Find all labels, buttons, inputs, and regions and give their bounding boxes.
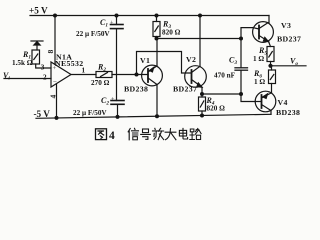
op-amp U1 N1A NE5532 <box>51 62 71 87</box>
wire C3 upper column / V3 base <box>241 28 253 68</box>
junction R3 bottom <box>155 37 159 41</box>
svg-text:1.5k Ω: 1.5k Ω <box>12 59 33 67</box>
char 号 <box>141 129 151 139</box>
transistor V4 BD238 <box>255 91 276 112</box>
svg-text:V1: V1 <box>140 56 150 65</box>
R5 value 1 ohm <box>253 55 264 63</box>
node Vo label <box>290 57 298 68</box>
V4 device BD238 <box>276 108 300 117</box>
transistor V3 BD237 <box>253 22 274 43</box>
R5 designator <box>258 46 267 57</box>
svg-text:820 Ω: 820 Ω <box>162 29 181 37</box>
svg-text:BD237: BD237 <box>173 85 197 94</box>
wire V1 collector to -5V <box>156 85 158 117</box>
svg-text:3: 3 <box>41 64 45 72</box>
C1 designator <box>100 18 108 29</box>
char 图 <box>96 129 107 140</box>
C2 designator <box>101 96 109 107</box>
capacitor C3 <box>235 68 248 94</box>
wire +5V corner to V3 collector <box>268 16 270 23</box>
R4 value 820 ohm <box>207 105 226 113</box>
V3 device BD237 <box>277 35 301 44</box>
C1 plus sign <box>110 21 114 27</box>
V1 designator <box>140 56 150 65</box>
wire Vi to pin 2 <box>4 78 51 80</box>
R3 value 820 ohm <box>162 29 181 37</box>
op-amp output wire pin 1 <box>71 74 96 76</box>
wire R1 to pin 3 <box>36 64 51 68</box>
resistor R5 <box>267 47 274 66</box>
V1 device BD238 <box>124 85 148 94</box>
svg-text:270 Ω: 270 Ω <box>91 79 110 87</box>
svg-text:BD238: BD238 <box>124 85 148 94</box>
transistor V2 BD237 <box>185 66 207 88</box>
resistor R6 <box>269 66 276 93</box>
wire V3 emitter to R5 <box>269 42 271 47</box>
wire C1 to C2 (crosses signal wire, no dot) <box>116 29 118 101</box>
svg-text:1 Ω: 1 Ω <box>254 78 265 86</box>
svg-text:820 Ω: 820 Ω <box>207 105 226 113</box>
svg-text:4: 4 <box>49 95 58 99</box>
char 路 <box>190 129 201 140</box>
C3 designator <box>229 56 237 67</box>
char 4 <box>109 130 115 142</box>
R1 designator <box>22 50 31 61</box>
svg-text:V3: V3 <box>281 21 291 30</box>
pin 2 label <box>43 74 47 82</box>
junction at C3 top node <box>239 37 243 41</box>
svg-text:BD238: BD238 <box>276 108 300 117</box>
R2 designator <box>97 63 106 74</box>
V4 designator <box>278 98 288 107</box>
svg-text:BD237: BD237 <box>277 35 301 44</box>
wire V2 emitter down <box>201 87 203 94</box>
svg-text:+5 V: +5 V <box>29 6 48 16</box>
V2 designator <box>186 55 196 64</box>
transistor V1 BD238 <box>142 65 163 86</box>
resistor R3 <box>153 14 160 39</box>
R4 designator <box>206 96 215 107</box>
-5V rail <box>36 114 271 118</box>
junction C3 bottom node <box>239 92 243 96</box>
svg-text:V4: V4 <box>278 98 288 107</box>
resistor R2 <box>96 72 112 78</box>
wire emitter node to C3 bottom node <box>202 93 241 95</box>
resistor R1 <box>32 50 40 64</box>
char 电 <box>179 128 187 139</box>
svg-text:1: 1 <box>82 67 86 75</box>
node Vi input <box>3 71 10 82</box>
char 大 <box>165 129 176 140</box>
R6 value 1 ohm <box>254 78 265 86</box>
wire R2 to V1 base <box>112 74 148 76</box>
pin 1 label <box>82 67 86 75</box>
char 放 <box>153 128 164 139</box>
C1 value 22uF/50V <box>76 30 110 38</box>
node base junction dot <box>135 73 139 77</box>
+5V rail <box>30 15 269 17</box>
junction on +5V rail at pin8 <box>53 14 57 18</box>
wire V4 collector to -5V corner <box>270 111 272 115</box>
wire C3 bottom node to V4 base <box>241 94 255 102</box>
R3 designator <box>162 20 171 31</box>
wire V1 emitter to R3 node <box>156 39 158 66</box>
junction output node <box>268 64 272 68</box>
capacitor C1 <box>111 14 124 29</box>
svg-text:1 Ω: 1 Ω <box>253 55 264 63</box>
R1 value 1.5k ohm <box>12 59 33 67</box>
pin 4 label (rotated) <box>49 95 58 99</box>
svg-text:470 nF: 470 nF <box>214 72 236 80</box>
C2 plus sign <box>111 97 115 103</box>
svg-text:22 μ F/50V: 22 μ F/50V <box>76 30 110 38</box>
V3 designator <box>281 21 291 30</box>
junction R4 on -5V rail <box>200 114 204 118</box>
pin 3 label <box>41 64 45 72</box>
pin 8 label (rotated) <box>46 50 55 54</box>
op-amp labels N1A NE5532 <box>55 53 84 69</box>
svg-text:V2: V2 <box>186 55 196 64</box>
wire V2 collector to +5V <box>199 16 201 67</box>
char 信 <box>128 128 138 140</box>
antenna input symbol <box>31 41 43 50</box>
wire R3 to C3 top node <box>157 38 242 40</box>
svg-text:NE5532: NE5532 <box>55 59 84 68</box>
wire output Vo <box>271 65 307 67</box>
svg-text:4: 4 <box>109 130 115 142</box>
C3 value 470 nF <box>214 72 236 80</box>
V2 device BD237 <box>173 85 197 94</box>
svg-text:8: 8 <box>46 50 55 54</box>
resistor R4 <box>199 94 206 116</box>
capacitor C2 <box>111 101 124 119</box>
node -5V label <box>34 109 51 119</box>
junction V2 collector on +5V rail <box>198 14 202 18</box>
svg-text:2: 2 <box>43 74 47 82</box>
svg-text:-5 V: -5 V <box>34 109 51 119</box>
junction V1 collector on -5V rail <box>155 114 159 118</box>
wire op-amp pin 4 to -5V <box>56 84 58 118</box>
wire op-amp pin 8 to +5V <box>54 16 56 65</box>
R2 value 270 ohm <box>91 79 110 87</box>
R6 designator <box>253 69 262 80</box>
node +5V label <box>29 6 48 16</box>
caption: 图4 信号放大电路 <box>96 128 202 142</box>
junction V2 emitter node <box>200 92 204 96</box>
junction on -5V rail at pin4 <box>55 116 59 120</box>
svg-text:22 μ F/50V: 22 μ F/50V <box>73 109 107 117</box>
C2 value 22uF/50V <box>73 109 107 117</box>
base tie wire V1-V2 <box>137 52 192 75</box>
